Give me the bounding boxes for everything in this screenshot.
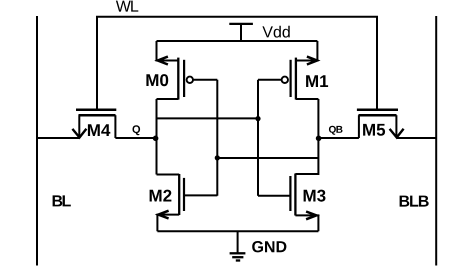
label QB bbox=[329, 126, 343, 135]
transistor M2 channel bar bbox=[178, 174, 180, 215]
transistor M0 source arrow bbox=[158, 57, 168, 65]
transistor M4 channel bar bbox=[79, 114, 116, 117]
label M1 bbox=[306, 75, 328, 87]
label Vdd bbox=[262, 26, 289, 38]
ground bar 3 bbox=[236, 259, 240, 261]
label GND bbox=[252, 241, 286, 252]
label M3 bbox=[304, 190, 326, 202]
wire BL to M4 bbox=[37, 137, 79, 139]
wire Q to M1/M3 gates (horizontal) bbox=[157, 117, 259, 119]
transistor M3 source wire bbox=[295, 215, 318, 231]
ground bar 1 bbox=[230, 252, 246, 254]
transistor M5 channel bar bbox=[359, 114, 397, 117]
ground stem bbox=[237, 231, 239, 253]
transistor M0 gate bubble bbox=[187, 77, 193, 83]
wire M1 drain bbox=[296, 99, 319, 138]
label WL bbox=[116, 1, 138, 12]
transistor M4 drain leg bbox=[114, 115, 116, 138]
wire M1 gate bbox=[258, 79, 282, 81]
transistor M2 gate bar bbox=[183, 178, 185, 211]
power rail Vdd wire bbox=[157, 40, 318, 42]
wire M3 drain bbox=[295, 138, 318, 174]
transistor M2 source wire bbox=[157, 215, 179, 232]
wire cross-couple to node QB bbox=[217, 157, 318, 159]
wordline WL wire bbox=[97, 17, 377, 109]
transistor M4 source arrow bbox=[72, 129, 86, 138]
node Q junction dot bbox=[153, 136, 159, 142]
transistor M1 gate bubble bbox=[282, 77, 288, 83]
label Q bbox=[133, 125, 141, 135]
transistor M4 gate bar bbox=[76, 108, 116, 111]
transistor M3 source arrow bbox=[306, 212, 316, 220]
transistor M5 source leg bbox=[358, 115, 360, 138]
transistor M1 source wire bbox=[296, 41, 318, 61]
wire M1 gate to M3 gate vertical bbox=[257, 80, 259, 196]
transistor M1 source arrow bbox=[307, 57, 317, 65]
wire M0 drain bbox=[157, 98, 179, 100]
ground bar 2 bbox=[232, 256, 243, 258]
power symbol Vdd stem bbox=[240, 24, 242, 41]
label M0 bbox=[146, 74, 168, 86]
transistor M5 drain leg bbox=[395, 115, 397, 137]
label BLB bbox=[400, 196, 429, 207]
wire M5 to BLB bbox=[397, 137, 436, 139]
op M0 source wire bbox=[157, 41, 179, 61]
bitline BL wire bbox=[36, 16, 38, 266]
label M4 bbox=[88, 124, 110, 136]
node QB junction dot bbox=[316, 136, 322, 142]
transistor M1 channel bar bbox=[295, 58, 297, 100]
transistor M0 gate bar bbox=[183, 60, 185, 97]
wire M0 gate to M2 gate vertical bbox=[216, 80, 218, 196]
transistor M3 channel bar bbox=[294, 174, 296, 216]
transistor M0 channel bar bbox=[177, 58, 179, 100]
wire M2 gate bbox=[184, 194, 217, 196]
transistor M5 gate bar bbox=[357, 108, 398, 111]
ground rail wire bbox=[157, 230, 318, 232]
bitline BLB wire bbox=[435, 16, 437, 266]
wire M4 to node Q bbox=[115, 137, 158, 139]
wire M0 gate bbox=[193, 79, 217, 81]
junction dot at Q cross-couple bbox=[255, 116, 260, 121]
wire node QB to M5 bbox=[318, 137, 359, 139]
label M2 bbox=[150, 190, 172, 202]
label M5 bbox=[363, 124, 385, 136]
transistor M3 gate bar bbox=[289, 176, 291, 211]
transistor M1 gate bar bbox=[290, 60, 292, 97]
power symbol Vdd bar bbox=[229, 23, 253, 25]
transistor M5 drain arrow bbox=[390, 129, 404, 138]
wire M2 drain bbox=[157, 174, 180, 176]
transistor M4 source leg bbox=[78, 115, 80, 137]
wire to M3 gate bbox=[258, 195, 290, 197]
junction dot at QB cross-couple bbox=[215, 155, 220, 160]
wire node Q vertical (M0 drain to M2 drain) bbox=[156, 99, 158, 175]
label BL bbox=[53, 195, 71, 206]
transistor M2 source arrow bbox=[158, 211, 168, 219]
